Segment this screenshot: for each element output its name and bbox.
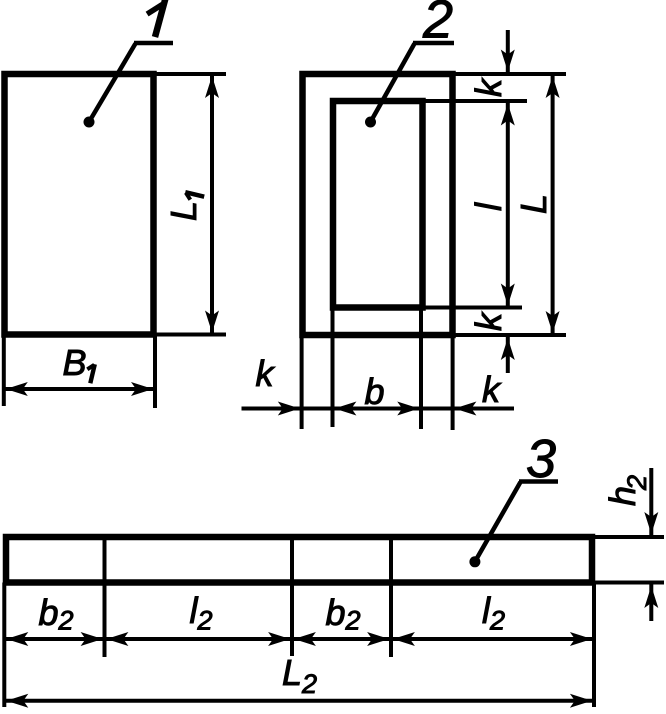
extension line divider 3 down bbox=[389, 583, 393, 658]
leader dot for callout 3 bbox=[469, 556, 480, 567]
dimension line k bottom segment bbox=[506, 335, 510, 373]
svg-text:b: b bbox=[365, 371, 385, 412]
extension line bottom for L1 bbox=[154, 333, 227, 337]
arrowhead L down bbox=[546, 311, 560, 333]
extension line inner-bottom right bbox=[423, 306, 523, 310]
extension line divider 2 down bbox=[290, 583, 294, 657]
arrowhead row1 at divider2 pointing right bbox=[268, 632, 290, 646]
arrowhead b right bbox=[397, 402, 419, 416]
arrowhead row1 at divider2 pointing left bbox=[294, 632, 316, 646]
strip divider 2 bbox=[290, 537, 294, 583]
arrowhead row1 far right bbox=[570, 632, 592, 646]
extension line left for B1 bbox=[2, 335, 6, 407]
plate 2 inner opening outline bbox=[333, 101, 423, 308]
svg-text:k: k bbox=[256, 353, 276, 394]
extension line outer-bottom right bbox=[453, 333, 567, 337]
svg-text:2: 2 bbox=[422, 0, 453, 50]
svg-text:L: L bbox=[163, 201, 204, 221]
dimension line h2 bottom segment bbox=[649, 583, 653, 622]
leader line callout 3 bbox=[475, 482, 558, 562]
arrowhead k top pointing down bbox=[501, 50, 515, 72]
dimension line k top segment bbox=[506, 30, 510, 74]
arrowhead l down bbox=[501, 284, 515, 306]
extension line outer-top right (for k and L) bbox=[453, 72, 567, 76]
arrowhead B1 left bbox=[6, 382, 28, 396]
arrowhead h2 pointing up bbox=[644, 586, 658, 608]
svg-text:l: l bbox=[468, 202, 509, 211]
dimension line h2 top segment bbox=[649, 468, 653, 537]
arrowhead L2 left bbox=[6, 694, 28, 708]
plate 1 outline bbox=[5, 74, 154, 335]
arrowhead k-left pointing right bbox=[278, 402, 300, 416]
leader dot for callout 2 bbox=[365, 117, 376, 128]
dimension line L1 bbox=[210, 74, 214, 335]
leader line callout 2 bbox=[371, 43, 455, 122]
arrowhead L1 up bbox=[205, 76, 219, 98]
extension line inner-left down bbox=[331, 308, 335, 428]
dimension line L2 bbox=[4, 699, 594, 703]
svg-text:B: B bbox=[63, 342, 87, 383]
svg-text:k: k bbox=[468, 311, 509, 331]
dimension line k b k horizontal bbox=[242, 407, 515, 411]
extension line outer-right down bbox=[451, 335, 455, 430]
strip 3 outline bbox=[6, 537, 592, 583]
leader line callout 1 bbox=[89, 43, 173, 122]
extension line right for B1 bbox=[153, 335, 157, 409]
plate 2 outer outline bbox=[303, 74, 453, 335]
svg-text:L: L bbox=[513, 194, 554, 214]
arrowhead h2 pointing down bbox=[644, 512, 658, 534]
dimension line B1 bbox=[4, 387, 155, 391]
dimension line l bbox=[506, 101, 510, 308]
arrowhead row1 at divider1 pointing right bbox=[81, 632, 103, 646]
svg-text:k: k bbox=[482, 369, 502, 410]
extension line top for L1 bbox=[154, 72, 227, 76]
dimension line b2 l2 b2 l2 row bbox=[4, 637, 594, 641]
extension line strip top right (for h2) bbox=[592, 535, 664, 539]
strip divider 3 bbox=[389, 537, 393, 583]
strip divider 1 bbox=[103, 537, 107, 583]
arrowhead row1 at divider3 pointing left bbox=[393, 632, 415, 646]
arrowhead L1 down bbox=[205, 311, 219, 333]
extension line outer-left down (for k b k) bbox=[300, 335, 304, 429]
svg-text:3: 3 bbox=[526, 429, 556, 489]
dimension line L bbox=[551, 74, 555, 335]
label L1 bbox=[163, 192, 204, 221]
extension line strip right down bbox=[592, 583, 596, 708]
arrowhead l up bbox=[501, 104, 515, 126]
arrowhead row1 at divider1 pointing left bbox=[106, 632, 128, 646]
extension line strip left down bbox=[2, 583, 6, 708]
svg-text:k: k bbox=[468, 77, 509, 97]
arrowhead L up bbox=[546, 76, 560, 98]
callout label 1 bbox=[147, 5, 162, 15]
arrowhead B1 right bbox=[131, 382, 153, 396]
leader dot for callout 1 bbox=[84, 117, 95, 128]
extension line strip bottom right (for h2) bbox=[592, 581, 664, 585]
extension line inner-top right (for k and l) bbox=[423, 99, 528, 103]
arrowhead L2 right bbox=[570, 694, 592, 708]
arrowhead row1 far left bbox=[6, 632, 28, 646]
extension line divider 1 down bbox=[103, 583, 107, 658]
extension line inner-right down bbox=[419, 308, 423, 430]
arrowhead row1 at divider3 pointing right bbox=[367, 632, 389, 646]
arrowhead b left bbox=[334, 402, 356, 416]
arrowhead k-right pointing left bbox=[454, 402, 476, 416]
arrowhead k bottom pointing up bbox=[501, 338, 515, 360]
